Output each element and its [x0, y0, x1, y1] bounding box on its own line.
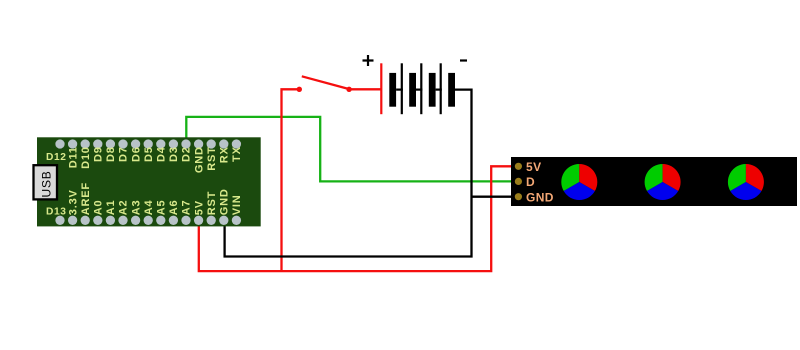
battery BT1	[363, 55, 468, 114]
battery minus symbol	[460, 59, 467, 61]
bottom pin header row	[55, 216, 241, 225]
wire: red switch to battery positive	[349, 88, 381, 90]
svg-text:USB: USB	[39, 170, 53, 197]
wire: black ground from battery negative to Arduino GND	[225, 90, 472, 257]
svg-text:D7: D7	[118, 146, 130, 162]
LED strip pad 5V	[515, 163, 522, 170]
svg-text:A6: A6	[168, 200, 180, 216]
svg-text:5V: 5V	[193, 200, 205, 215]
svg-text:A7: A7	[181, 200, 193, 216]
svg-text:5V: 5V	[526, 160, 541, 174]
svg-text:D2: D2	[181, 146, 193, 162]
svg-text:D9: D9	[93, 146, 105, 162]
switch lever	[302, 76, 349, 89]
bottom row pin labels	[67, 182, 243, 215]
battery link cell3-cell4	[436, 88, 442, 90]
LED 2 (RGB pie)	[645, 164, 681, 200]
LED 3 (RGB pie)	[728, 164, 764, 200]
svg-text:3.3V: 3.3V	[67, 189, 79, 215]
battery plus symbol	[363, 55, 374, 66]
svg-text:A4: A4	[143, 199, 155, 215]
svg-text:A5: A5	[156, 200, 168, 216]
svg-text:D11: D11	[67, 146, 79, 168]
wire: green signal D2 to LED strip D	[186, 117, 518, 181]
battery cell 4 positive plate	[440, 63, 442, 114]
LED strip body	[511, 157, 797, 206]
svg-text:VIN: VIN	[231, 194, 243, 215]
svg-text:A3: A3	[130, 200, 142, 216]
svg-text:TX: TX	[231, 146, 243, 162]
svg-text:D8: D8	[105, 146, 117, 162]
svg-text:AREF: AREF	[80, 182, 92, 215]
svg-text:D: D	[526, 175, 535, 189]
battery link cell1-cell2	[396, 88, 403, 90]
top pin header row	[55, 139, 241, 148]
svg-text:D4: D4	[156, 146, 168, 162]
wire: red branch from 5V rail up to switch	[282, 89, 300, 271]
svg-text:GND: GND	[219, 188, 231, 215]
LED strip pad D	[515, 178, 522, 185]
svg-text:A0: A0	[93, 200, 105, 216]
LED 1 (RGB pie)	[561, 164, 597, 200]
svg-text:RX: RX	[219, 146, 231, 163]
svg-text:D3: D3	[168, 146, 180, 162]
LED strip pad GND	[515, 193, 522, 200]
battery cell 1 negative plate	[389, 73, 396, 107]
svg-text:RST: RST	[206, 191, 218, 215]
battery cell 2 negative plate	[409, 73, 416, 107]
battery cell 4 negative plate	[448, 73, 455, 107]
svg-text:RST: RST	[206, 146, 218, 170]
svg-text:D12: D12	[46, 152, 67, 163]
svg-text:D13: D13	[46, 207, 67, 218]
svg-text:D6: D6	[130, 146, 142, 162]
svg-text:D10: D10	[80, 146, 92, 169]
USB connector	[34, 165, 58, 199]
svg-text:A2: A2	[118, 200, 130, 216]
switch S1	[297, 76, 352, 92]
wire: black branch to LED strip GND	[472, 196, 519, 198]
svg-text:GND: GND	[526, 190, 554, 204]
switch left contact dot	[297, 87, 302, 92]
battery positive plate (red)	[380, 63, 382, 114]
arduino nano board	[37, 137, 261, 226]
switch right contact dot	[346, 87, 351, 92]
battery cell 3 positive plate	[420, 63, 422, 114]
svg-text:A1: A1	[105, 200, 117, 216]
battery cell 2 positive plate	[401, 63, 403, 114]
top row pin labels	[67, 146, 243, 173]
svg-text:GND: GND	[193, 146, 205, 173]
battery cell 3 negative plate	[429, 73, 436, 107]
svg-text:D5: D5	[143, 146, 155, 162]
wire: red 5V rail from Arduino 5V pin to LED strip 5V	[199, 166, 519, 271]
battery link cell2-cell3	[416, 88, 422, 90]
